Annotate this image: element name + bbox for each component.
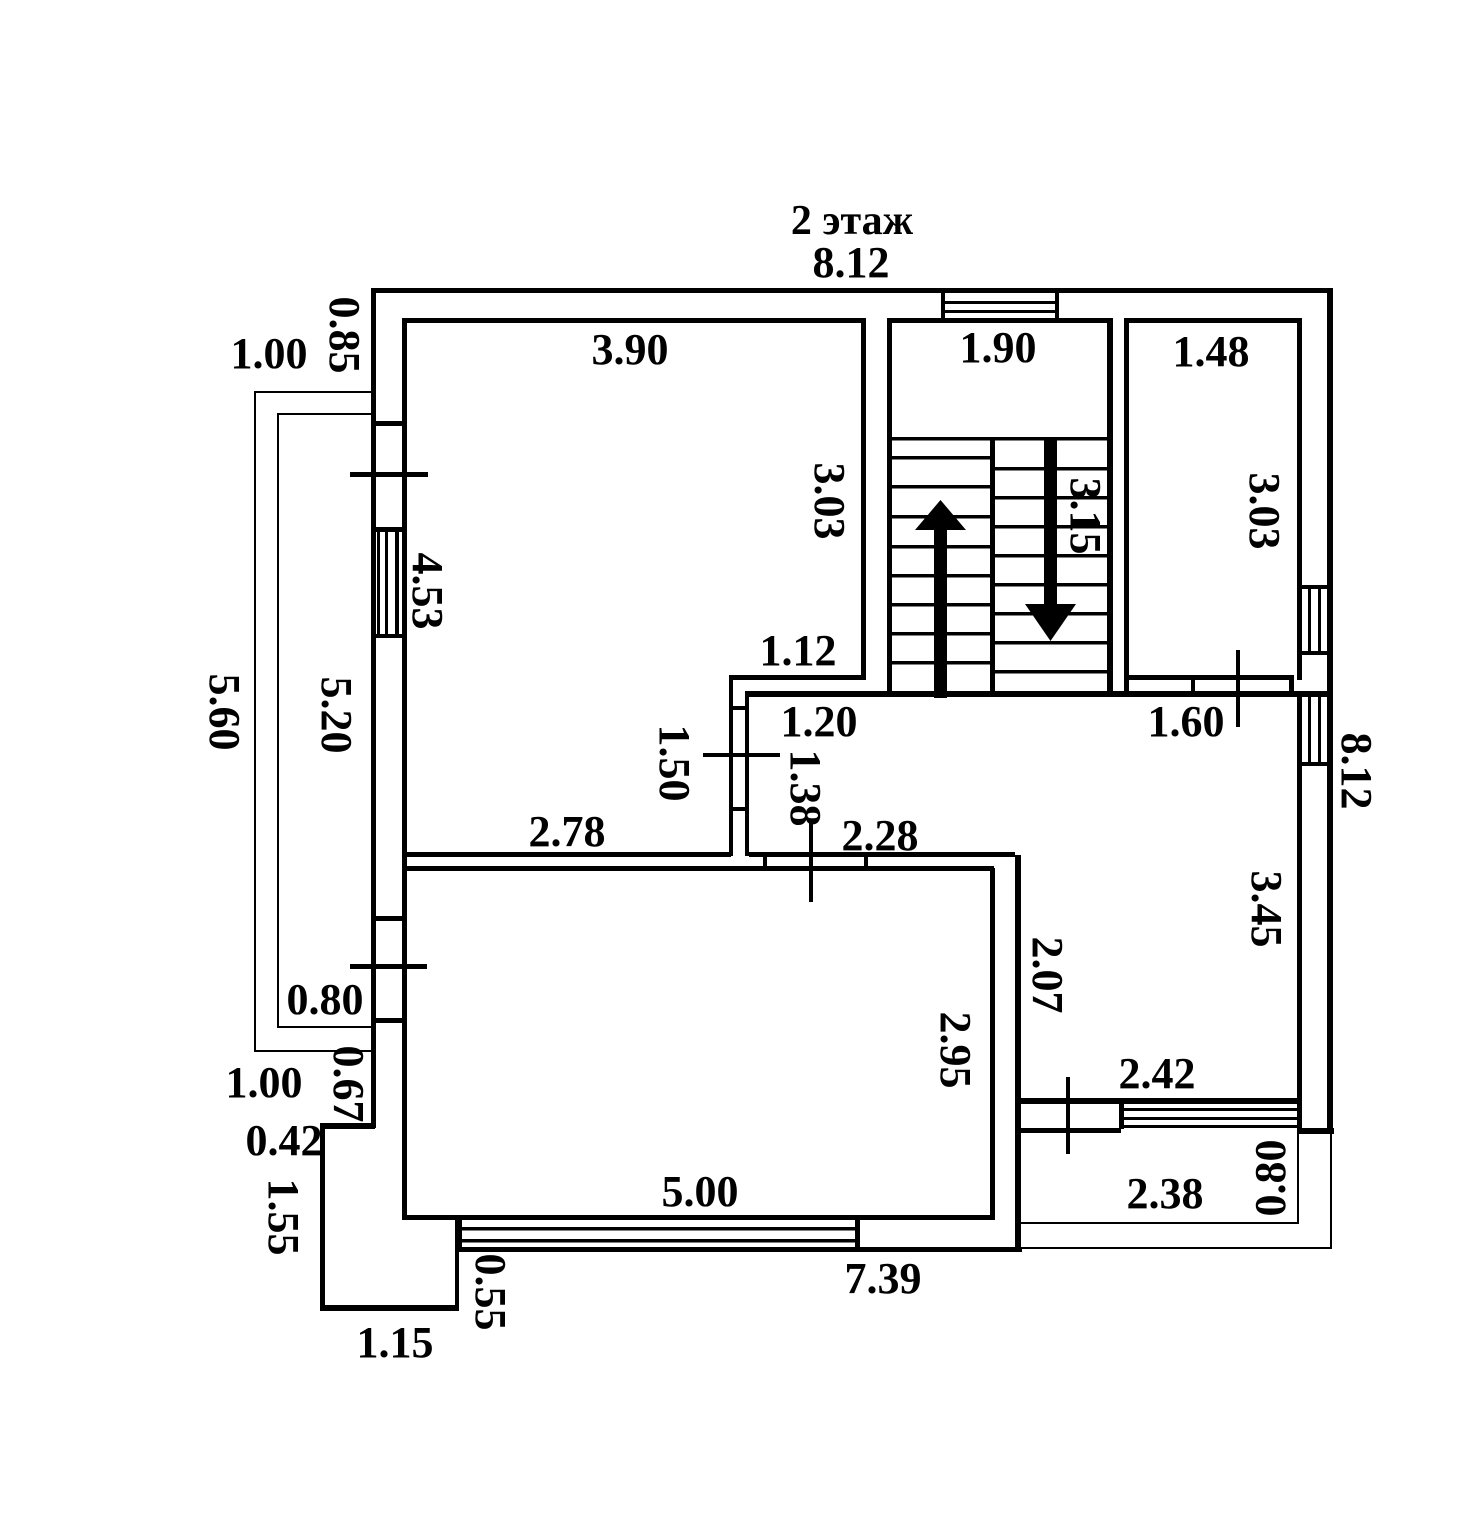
wall: big room bottom interior	[402, 1215, 995, 1220]
svg-text:4.53: 4.53	[403, 553, 452, 630]
svg-text:5.20: 5.20	[312, 677, 361, 754]
vent window: line 1	[941, 301, 1059, 304]
svg-text:2.28: 2.28	[842, 811, 919, 860]
wall: corridor bottom lower line	[404, 866, 994, 871]
svg-text:3.90: 3.90	[592, 325, 669, 374]
svg-text:1.20: 1.20	[781, 697, 858, 746]
window bottom: glazing 2	[462, 1239, 856, 1243]
svg-text:0.67: 0.67	[324, 1046, 373, 1123]
balcony 2.38: inner bottom edge	[1021, 1222, 1299, 1224]
balcony left: outer side	[254, 391, 256, 1052]
balcony 2.38: outer bottom edge	[1021, 1247, 1332, 1249]
svg-text:2.42: 2.42	[1119, 1049, 1196, 1098]
stairs: up arrow	[915, 500, 966, 698]
svg-text:1.12: 1.12	[760, 626, 837, 675]
stairs: flight divider	[990, 437, 995, 697]
svg-text:1.60: 1.60	[1148, 697, 1225, 746]
svg-text:1.15: 1.15	[357, 1318, 434, 1367]
svg-text:2.07: 2.07	[1023, 937, 1072, 1014]
dimension tick 2.42	[1066, 1077, 1070, 1154]
svg-text:0.85: 0.85	[320, 297, 369, 374]
wall: staircase left	[887, 318, 892, 697]
left wall: window top cap	[371, 527, 407, 532]
wall: corridor top	[745, 691, 1332, 697]
wall: 1.12 wall	[729, 675, 866, 680]
stairs: left flight steps	[892, 437, 990, 665]
wall: room1 top interior	[402, 318, 866, 323]
svg-text:1.38: 1.38	[781, 750, 830, 827]
wall: room 1.48 bottom	[1124, 675, 1294, 680]
wall: corridor bottom upper line left	[402, 852, 731, 857]
balcony left: inner top	[277, 413, 371, 415]
svg-text:1.90: 1.90	[960, 323, 1037, 372]
balcony 2.38: inner right edge	[1297, 1133, 1299, 1224]
right wall: lower window glazing	[1308, 697, 1321, 762]
svg-text:0.80: 0.80	[287, 975, 364, 1024]
svg-text:1.55: 1.55	[259, 1179, 308, 1256]
balcony 1.15 right edge	[455, 1217, 459, 1311]
svg-text:3.03: 3.03	[1240, 473, 1289, 550]
stairs: down arrow	[1025, 437, 1076, 641]
wall: room1 right interior	[861, 318, 866, 680]
wall: bottom band corner block	[1297, 1128, 1334, 1134]
door frame tick in corridor wall B	[864, 852, 868, 870]
svg-text:1.00: 1.00	[226, 1058, 303, 1107]
window right room: glazing 1	[1124, 1108, 1300, 1111]
wall: right interior line lower	[1297, 697, 1302, 1130]
svg-text:3.45: 3.45	[1242, 871, 1291, 948]
svg-text:1.00: 1.00	[231, 329, 308, 378]
right wall: upper window glazing	[1308, 589, 1321, 651]
right wall: upper window top cap	[1297, 585, 1333, 589]
balcony left: outer bottom	[254, 1050, 374, 1052]
left wall: balcony door top tick	[371, 421, 407, 426]
dimension tick 1.38	[809, 822, 813, 902]
door frame tick in corridor wall A	[763, 852, 767, 870]
wall: room 1.48 left	[1124, 318, 1129, 696]
window bottom: right cap	[855, 1217, 860, 1252]
vent window: right cap	[1055, 288, 1059, 322]
wall: connector jog	[1289, 676, 1294, 696]
left wall: opening 0.80 top tick	[371, 916, 407, 921]
window right room: bottom line	[1124, 1125, 1300, 1128]
svg-text:0.80: 0.80	[1246, 1140, 1295, 1217]
svg-text:3.03: 3.03	[805, 463, 854, 540]
svg-text:8.12: 8.12	[1332, 733, 1381, 810]
left wall: window glazing	[377, 531, 399, 635]
wall: corridor bottom upper line right	[749, 852, 1015, 857]
wall: step 0.42 bottom-left	[322, 1123, 375, 1129]
dimension tick 1.60	[1236, 650, 1240, 727]
balcony left: inner bottom	[277, 1026, 371, 1028]
balcony 2.38: outer right edge	[1330, 1133, 1332, 1249]
dimension tick 1.50	[703, 753, 780, 757]
svg-text:3.15: 3.15	[1061, 478, 1110, 555]
svg-text:2.95: 2.95	[931, 1012, 980, 1089]
wall: room 1.48 top	[1124, 318, 1302, 323]
svg-text:5.00: 5.00	[662, 1167, 739, 1216]
window bottom: left cap	[456, 1217, 462, 1252]
wall: room 1.48 right interior	[1297, 318, 1302, 680]
svg-text:1.48: 1.48	[1173, 327, 1250, 376]
wall: left interior line	[402, 318, 407, 1219]
wall: door-wall right line	[745, 691, 749, 856]
svg-text:0.42: 0.42	[246, 1116, 323, 1165]
wall: top exterior	[371, 288, 1333, 293]
door frame tick upper	[729, 706, 749, 710]
svg-text:8.12: 8.12	[813, 238, 890, 287]
right wall: lower window bottom cap	[1297, 762, 1333, 766]
window right room: left cap	[1119, 1098, 1124, 1129]
left wall: window bottom cap	[371, 634, 407, 638]
svg-text:2.38: 2.38	[1127, 1169, 1204, 1218]
wall: staircase right	[1107, 318, 1113, 697]
wall: right room left	[1015, 855, 1021, 1250]
left wall: opening 0.80 bottom tick	[371, 1018, 407, 1023]
vent window: line 2	[941, 310, 1059, 313]
svg-text:5.60: 5.60	[200, 674, 249, 751]
dimension tick 0.85	[350, 472, 428, 477]
wall: right exterior	[1327, 288, 1333, 1133]
window right room: glazing 2	[1124, 1117, 1300, 1120]
dimension tick 0.80 left	[350, 964, 427, 969]
wall: left exterior	[371, 288, 376, 1128]
wall: big room right	[990, 868, 995, 1219]
door frame tick room1.48	[1191, 676, 1195, 696]
svg-text:0.55: 0.55	[466, 1254, 515, 1331]
svg-text:2.78: 2.78	[529, 807, 606, 856]
svg-text:1.50: 1.50	[650, 725, 699, 802]
wall: right room bottom	[1015, 1098, 1302, 1104]
balcony 1.15 bottom edge	[320, 1305, 457, 1311]
wall: bottom band lower line left	[1015, 1128, 1121, 1133]
svg-text:7.39: 7.39	[845, 1254, 922, 1303]
balcony left: inner side	[277, 413, 279, 1028]
wall: door-wall left line	[729, 675, 733, 856]
wall: staircase top	[887, 318, 1112, 323]
balcony left: outer top	[254, 391, 371, 393]
right wall: upper window bottom cap	[1297, 651, 1333, 655]
vent window: left cap	[941, 288, 945, 322]
door frame tick lower	[729, 807, 749, 811]
balcony 1.15 left edge	[320, 1123, 325, 1311]
stairs: right flight steps	[995, 437, 1107, 674]
wall: bottom exterior under window	[457, 1247, 1022, 1252]
window bottom: glazing 1	[462, 1227, 856, 1231]
